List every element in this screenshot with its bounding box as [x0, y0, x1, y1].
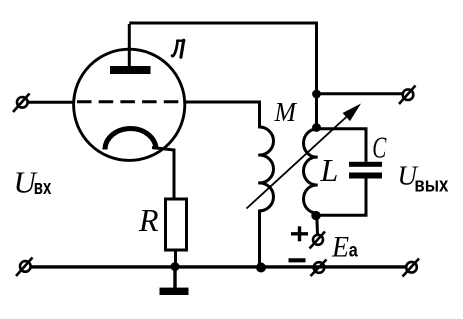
terminal +Ea	[310, 232, 326, 249]
grid electrode (dashed)	[77, 100, 184, 103]
wire capacitor bottom to L bottom	[317, 179, 367, 216]
svg-text:E: E	[331, 231, 349, 264]
terminal output (top right)	[399, 86, 416, 105]
wire anode junction to output terminal	[317, 92, 404, 95]
junction resistor/rail	[171, 262, 180, 271]
resistor R	[166, 199, 187, 250]
label tube Л	[172, 40, 184, 57]
wire anode junction down to tank	[315, 94, 318, 129]
anode electrode	[110, 24, 151, 74]
inductor M	[258, 127, 273, 211]
svg-text:M: M	[274, 97, 298, 127]
svg-text:а: а	[349, 241, 358, 262]
tube U1 envelope	[74, 49, 185, 160]
label E a	[331, 231, 358, 264]
inductor L	[304, 129, 318, 213]
minus sign	[289, 258, 306, 262]
bottom rail wire	[31, 265, 407, 268]
capacitor C branch wires	[317, 129, 367, 162]
junction coil M/rail	[256, 263, 266, 273]
svg-text:L: L	[320, 152, 339, 188]
label U вх	[14, 164, 52, 199]
wire cathode to resistor	[152, 148, 174, 200]
svg-text:вых: вых	[414, 174, 448, 196]
terminal bottom left	[16, 258, 33, 277]
wire input terminal to tube	[28, 101, 75, 104]
wire coil M to rail	[258, 210, 261, 267]
wire grid to coil M	[185, 102, 260, 128]
svg-text:R: R	[138, 202, 159, 238]
wire anode top loop	[129, 23, 316, 94]
junction anode/output	[312, 90, 321, 99]
plus sign	[291, 226, 308, 241]
junction tank bottom	[311, 211, 320, 220]
terminal bottom right	[403, 259, 420, 277]
junction tank top	[312, 123, 321, 132]
svg-text:вх: вх	[34, 177, 52, 199]
wire resistor to rail	[174, 250, 177, 267]
ground	[160, 267, 189, 295]
terminal -Ea (on rail)	[311, 260, 327, 277]
capacitor C plates	[349, 162, 382, 179]
terminal input (grid)	[13, 94, 30, 113]
svg-text:C: C	[372, 130, 386, 165]
label U вых	[398, 160, 449, 196]
wire L bottom to +Ea terminal	[315, 216, 319, 235]
variable coupling arrow	[247, 104, 362, 209]
cathode electrode	[105, 129, 156, 150]
